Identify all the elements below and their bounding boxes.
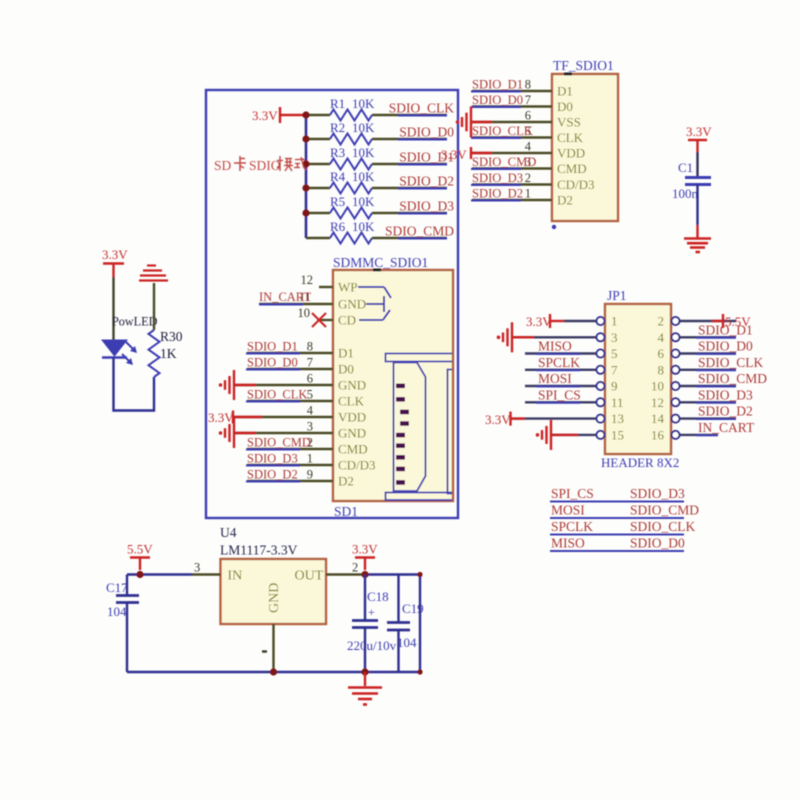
power 3.3V pull-up bus xyxy=(280,107,303,123)
wire TF pin 5 xyxy=(472,136,552,138)
svg-text:SDIO_CMD: SDIO_CMD xyxy=(472,155,536,169)
svg-text:3.3V: 3.3V xyxy=(102,247,128,262)
svg-text:R4: R4 xyxy=(330,169,346,184)
junction xyxy=(361,571,368,578)
svg-text:SDIO_CMD: SDIO_CMD xyxy=(698,371,767,386)
svg-text:10K: 10K xyxy=(352,145,375,160)
wire ground rail xyxy=(127,671,420,673)
pin 2 CD/D3 xyxy=(525,171,595,192)
pin 4 VDD xyxy=(525,140,585,161)
net SDIO_D2 xyxy=(246,468,300,482)
wire SDMMC pin 7 xyxy=(247,368,333,370)
pin 5 CLK xyxy=(525,124,584,145)
net IN_CART xyxy=(259,290,311,305)
wire JP1 pin 8 xyxy=(680,369,737,371)
resistor R6 xyxy=(330,219,375,244)
junction xyxy=(302,135,309,142)
svg-text:SDIO_CLK: SDIO_CLK xyxy=(472,124,533,138)
net SPI_CS xyxy=(536,387,581,403)
net SDIO_D3 xyxy=(696,387,753,403)
wire LED cathode xyxy=(114,358,155,411)
pin 2 xyxy=(672,317,680,325)
svg-text:SDIO_CLK: SDIO_CLK xyxy=(247,388,307,402)
svg-text:4: 4 xyxy=(307,404,314,418)
svg-text:9: 9 xyxy=(307,468,313,482)
SD card pads xyxy=(396,384,409,485)
net SDIO_CLK xyxy=(246,388,307,402)
svg-text:VDD: VDD xyxy=(338,410,366,425)
pin 7 D0 xyxy=(525,93,573,114)
svg-text:D1: D1 xyxy=(557,84,573,99)
junction xyxy=(136,571,143,578)
svg-text:PowLED: PowLED xyxy=(112,315,158,329)
svg-text:8: 8 xyxy=(658,362,665,377)
ground TF VSS xyxy=(462,107,471,138)
wire C18 bottom xyxy=(364,628,366,673)
svg-text:10: 10 xyxy=(298,306,311,320)
SD card drawing xyxy=(386,354,453,501)
wire SDMMC pin 12 xyxy=(319,286,333,288)
pin 6 GND xyxy=(307,372,366,393)
svg-text:MISO: MISO xyxy=(538,339,572,354)
svg-text:GND: GND xyxy=(338,426,366,441)
wire JP1 pin 15 xyxy=(551,434,597,436)
net SDIO_CMD xyxy=(385,224,454,239)
node TF bottom xyxy=(552,225,556,229)
svg-text:10K: 10K xyxy=(352,219,375,234)
ground JP1 pin 3 xyxy=(512,336,534,338)
pin 3 xyxy=(597,333,605,341)
wire JP1 pin 10 xyxy=(680,385,737,387)
ground JP1 pin 15 xyxy=(551,434,578,436)
pin 1 GND xyxy=(262,650,267,652)
net SDIO_CLK xyxy=(471,124,533,138)
svg-text:8: 8 xyxy=(525,78,531,92)
svg-text:SDIO_D3: SDIO_D3 xyxy=(630,486,685,501)
resistor R3 xyxy=(330,145,375,170)
svg-text:D2: D2 xyxy=(557,193,573,208)
svg-text:D0: D0 xyxy=(557,99,573,114)
power 3.3V TF VDD xyxy=(441,147,492,162)
power 5.5V JP1 pin 2 xyxy=(712,314,751,329)
pin 13 xyxy=(597,415,605,423)
wire R3 to net label xyxy=(372,163,447,165)
pin 8 D1 xyxy=(525,78,573,99)
svg-text:R6: R6 xyxy=(330,219,346,234)
svg-text:IN_CART: IN_CART xyxy=(259,290,311,304)
net SDIO_D0 xyxy=(398,125,454,140)
svg-text:SPI_CS: SPI_CS xyxy=(551,486,594,501)
svg-text:SPI_CS: SPI_CS xyxy=(538,387,581,402)
wire TF pin 3 xyxy=(472,167,552,169)
svg-text:7: 7 xyxy=(611,362,618,377)
wire JP1 pin 7 xyxy=(525,369,597,371)
svg-text:9: 9 xyxy=(611,379,618,394)
pin 9 D2 xyxy=(307,468,354,489)
pin 8 D1 xyxy=(307,340,354,361)
svg-text:6: 6 xyxy=(658,346,665,361)
resistor R1 xyxy=(330,96,375,121)
wire JP1 pin 4 xyxy=(680,336,737,338)
wire TF pin 6 xyxy=(472,121,552,123)
wire C19 bottom xyxy=(397,630,399,672)
wire JP1 pin 14 xyxy=(680,417,737,419)
svg-text:SPCLK: SPCLK xyxy=(551,519,593,534)
net SPCLK xyxy=(536,355,580,371)
net SDIO_D2 xyxy=(696,404,753,420)
svg-text:7: 7 xyxy=(307,356,313,370)
svg-text:1: 1 xyxy=(611,314,618,329)
wire right rail xyxy=(419,575,421,673)
svg-text:CD/D3: CD/D3 xyxy=(557,177,595,192)
pin 8 xyxy=(672,366,680,374)
svg-text:10K: 10K xyxy=(352,96,375,111)
text SD card SDIO mode caption xyxy=(214,156,307,173)
wire IN xyxy=(127,573,221,575)
svg-text:JP1: JP1 xyxy=(607,288,627,303)
wire JP1 pin 13 xyxy=(511,417,597,419)
svg-text:12: 12 xyxy=(651,395,664,410)
svg-text:3.3V: 3.3V xyxy=(252,108,278,123)
svg-text:2: 2 xyxy=(658,314,665,329)
svg-text:SDIO_CLK: SDIO_CLK xyxy=(698,355,764,370)
svg-text:LM1117-3.3V: LM1117-3.3V xyxy=(220,543,298,558)
power 3.3V SDMMC VDD xyxy=(208,410,333,425)
wire R6 to net label xyxy=(372,237,447,239)
svg-text:1K: 1K xyxy=(160,346,177,361)
power 3.3V JP1 pin 13 xyxy=(511,412,526,426)
pin 14 xyxy=(672,415,680,423)
svg-text:R30: R30 xyxy=(160,329,183,344)
svg-text:SDIO_D3: SDIO_D3 xyxy=(698,387,753,402)
capacitor C18 xyxy=(347,589,397,653)
pin 9 xyxy=(597,382,605,390)
wire R6 left lead xyxy=(306,237,330,239)
svg-text:GND: GND xyxy=(338,297,366,312)
svg-text:3: 3 xyxy=(307,420,313,434)
wire TF pin 8 xyxy=(472,90,552,92)
svg-text:R2: R2 xyxy=(330,120,345,135)
net SDIO_D0 xyxy=(696,339,753,355)
svg-text:IN: IN xyxy=(228,569,243,584)
svg-text:D0: D0 xyxy=(338,362,354,377)
wire R1 to net label xyxy=(372,114,447,116)
net SDIO_D1 xyxy=(398,150,454,165)
wire TF pin 7 xyxy=(472,105,552,107)
svg-text:CD: CD xyxy=(338,313,356,328)
power 3.3V C1 xyxy=(686,124,712,152)
wire SDMMC pin 11 IN_CART xyxy=(259,303,333,305)
svg-text:104: 104 xyxy=(107,604,127,619)
wire C19 top xyxy=(397,575,399,623)
capacitor C1 xyxy=(672,160,711,201)
connector TF_SDIO1 xyxy=(552,58,618,221)
wire JP1 pin 5 xyxy=(525,352,597,354)
svg-text:7: 7 xyxy=(525,93,531,107)
svg-text:5.5V: 5.5V xyxy=(127,542,153,557)
svg-text:CD/D3: CD/D3 xyxy=(338,458,376,473)
svg-text:4: 4 xyxy=(525,140,532,154)
svg-text:3: 3 xyxy=(611,330,618,345)
junction xyxy=(302,184,309,191)
net SDIO_D0 xyxy=(471,93,523,107)
svg-text:5: 5 xyxy=(307,388,313,402)
svg-text:3.3V: 3.3V xyxy=(526,314,552,329)
wire C18 top xyxy=(364,575,366,621)
svg-text:3.3V: 3.3V xyxy=(208,410,234,425)
svg-text:SDIO_D0: SDIO_D0 xyxy=(399,125,454,140)
pin 7 D0 xyxy=(307,356,354,377)
pin 1 xyxy=(597,317,605,325)
net SDIO_D2 xyxy=(398,174,454,189)
ground supply xyxy=(348,672,382,705)
pin 4 VDD xyxy=(307,404,366,425)
wire C17 bottom xyxy=(126,603,128,673)
svg-text:2: 2 xyxy=(525,171,531,185)
svg-text:16: 16 xyxy=(651,427,665,442)
svg-text:104: 104 xyxy=(397,635,417,650)
wire C17 top xyxy=(126,575,128,596)
pin 11 GND xyxy=(299,290,366,312)
switch WP-GND-CD xyxy=(358,287,391,320)
svg-text:SDIO_D2: SDIO_D2 xyxy=(247,468,298,482)
svg-text:SDIO_D0: SDIO_D0 xyxy=(472,93,523,107)
svg-text:14: 14 xyxy=(651,411,665,426)
net SDIO_D3 xyxy=(398,199,454,214)
ground SDMMC pin 6 xyxy=(234,384,333,386)
wire JP1 pin 9 xyxy=(525,385,597,387)
net SDIO_D2 xyxy=(471,187,523,201)
svg-text:1: 1 xyxy=(525,187,531,201)
junction xyxy=(417,669,422,674)
svg-text:SDIO_CLK: SDIO_CLK xyxy=(389,101,455,116)
svg-text:1: 1 xyxy=(307,452,313,466)
pin 3 IN xyxy=(194,561,200,575)
svg-text:SDMMC_SDIO1: SDMMC_SDIO1 xyxy=(333,255,428,270)
pin 16 xyxy=(672,431,680,439)
junction xyxy=(302,209,309,216)
svg-text:3.3V: 3.3V xyxy=(352,542,378,557)
svg-text:HEADER 8X2: HEADER 8X2 xyxy=(601,455,679,470)
net SDIO_D1 xyxy=(246,340,300,354)
pin 2 CMD xyxy=(307,436,368,457)
wire JP1 pin 6 xyxy=(680,352,737,354)
net SDIO_D3 xyxy=(471,171,523,185)
wire SDMMC pin 5 xyxy=(247,400,333,402)
svg-text:VSS: VSS xyxy=(557,115,581,130)
svg-text:SDIO_D0: SDIO_D0 xyxy=(630,536,685,551)
svg-text:OUT: OUT xyxy=(295,569,324,584)
pin 10 xyxy=(672,382,680,390)
wire JP1 pin 3 xyxy=(512,336,597,338)
svg-text:C18: C18 xyxy=(367,589,389,604)
no-connect X pin 10 xyxy=(312,313,326,327)
net SDIO_D3 xyxy=(246,452,300,466)
svg-text:VDD: VDD xyxy=(557,146,585,161)
LED PowLED xyxy=(102,315,158,366)
svg-text:IN_CART: IN_CART xyxy=(698,420,755,435)
net SDIO_CMD xyxy=(246,436,311,450)
svg-text:SDIO_D1: SDIO_D1 xyxy=(247,340,298,354)
svg-text:CLK: CLK xyxy=(338,394,365,409)
power 3.3V JP1 pin 1 xyxy=(550,314,564,328)
wire JP1 pin 16 xyxy=(680,434,719,436)
pin 3 CMD xyxy=(525,155,587,176)
wire GND pin xyxy=(272,624,274,672)
wire SDMMC pin 8 xyxy=(247,352,333,354)
wire R4 left lead xyxy=(306,187,330,189)
resistor R30 xyxy=(149,329,183,377)
wire TF pin 2 xyxy=(472,183,552,185)
net MISO xyxy=(536,339,580,355)
pin 1 D2 xyxy=(525,187,573,208)
junction xyxy=(302,160,309,167)
wire pull-up bus xyxy=(305,115,308,238)
pin 6 VSS xyxy=(525,109,581,130)
pin 11 xyxy=(597,398,605,406)
wire LED anode xyxy=(112,277,114,340)
pin 5 CLK xyxy=(307,388,365,409)
wire JP1 pin 12 xyxy=(680,401,737,403)
svg-text:SPCLK: SPCLK xyxy=(538,355,580,370)
svg-text:R5: R5 xyxy=(330,194,345,209)
wire R5 to net label xyxy=(372,212,447,214)
svg-text:SDIO_CMD: SDIO_CMD xyxy=(385,224,454,239)
junction xyxy=(302,111,309,118)
svg-text:SDIO_D2: SDIO_D2 xyxy=(472,187,523,201)
pin 12 xyxy=(672,398,680,406)
wire net tie xyxy=(550,517,684,519)
pin 15 xyxy=(597,431,605,439)
wire SDMMC pin 9 xyxy=(247,480,333,482)
wire SDMMC pin 1 xyxy=(247,464,333,466)
wire R30 top xyxy=(153,283,155,330)
svg-text:SDIO: SDIO xyxy=(249,158,281,173)
wire R3 left lead xyxy=(306,163,330,165)
net IN_CART xyxy=(696,420,755,436)
svg-text:MOSI: MOSI xyxy=(538,371,572,386)
svg-text:TF_SDIO1: TF_SDIO1 xyxy=(553,58,614,73)
wire JP1 pin 11 xyxy=(525,401,597,403)
svg-text:5.5V: 5.5V xyxy=(725,314,751,329)
pin 10 CD xyxy=(298,306,357,328)
svg-text:C1: C1 xyxy=(678,160,693,175)
net SDIO_CMD xyxy=(471,155,536,169)
svg-text:10K: 10K xyxy=(352,120,375,135)
power 5.5V input xyxy=(127,542,153,571)
svg-text:15: 15 xyxy=(611,427,624,442)
svg-text:R3: R3 xyxy=(330,145,345,160)
wire R1 left lead xyxy=(306,114,330,116)
net SDIO_CLK xyxy=(696,355,764,371)
regulator U4 LM1117-3.3V xyxy=(220,525,326,624)
svg-text:CMD: CMD xyxy=(338,442,368,457)
pin 4 xyxy=(672,333,680,341)
pin 7 xyxy=(597,366,605,374)
svg-text:SDIO_CMD: SDIO_CMD xyxy=(630,503,699,518)
svg-text:SD: SD xyxy=(214,158,232,173)
svg-text:SDIO_D2: SDIO_D2 xyxy=(698,404,753,419)
svg-text:2: 2 xyxy=(352,561,358,575)
junction xyxy=(417,572,422,577)
svg-text:SDIO_D3: SDIO_D3 xyxy=(472,171,523,185)
svg-text:3.3V: 3.3V xyxy=(686,124,712,139)
junction xyxy=(270,668,277,675)
svg-text:5: 5 xyxy=(611,346,618,361)
wire JP1 pin 1 xyxy=(564,320,597,322)
wire C1 bottom xyxy=(696,185,698,226)
wire net tie xyxy=(550,501,684,503)
ground C1 xyxy=(684,239,711,253)
ground SDMMC pin 3 xyxy=(234,432,333,434)
pin 2 OUT xyxy=(352,561,358,575)
svg-text:CMD: CMD xyxy=(557,161,587,176)
connector JP1 xyxy=(601,288,679,470)
svg-text:SDIO_CMD: SDIO_CMD xyxy=(247,436,311,450)
resistor R4 xyxy=(330,169,375,194)
wire R5 left lead xyxy=(306,212,330,214)
svg-text:+: + xyxy=(368,605,375,619)
net MOSI xyxy=(536,371,580,387)
power 3.3V output xyxy=(352,542,378,571)
svg-text:D2: D2 xyxy=(338,474,354,489)
pin 3 GND xyxy=(307,420,366,441)
resistor R5 xyxy=(330,194,375,219)
svg-text:WP: WP xyxy=(338,280,358,295)
svg-text:GND: GND xyxy=(338,378,366,393)
ground R30 xyxy=(139,266,168,281)
svg-text:CLK: CLK xyxy=(557,130,584,145)
pin 1 CD/D3 xyxy=(307,452,376,473)
svg-text:SDIO_D0: SDIO_D0 xyxy=(247,356,298,370)
resistor R2 xyxy=(330,120,375,145)
pin 12 WP xyxy=(301,273,358,295)
wire TF pin 1 xyxy=(472,199,552,201)
svg-text:6: 6 xyxy=(307,372,313,386)
net SDIO_CLK xyxy=(389,101,455,116)
net SDIO_D0 xyxy=(246,356,300,370)
svg-text:SD1: SD1 xyxy=(334,504,358,519)
svg-text:D1: D1 xyxy=(338,346,354,361)
net SDIO_D1 xyxy=(696,322,753,338)
capacitor C17 xyxy=(106,580,139,619)
svg-text:100n: 100n xyxy=(672,186,699,201)
pin 6 xyxy=(672,350,680,358)
svg-text:10: 10 xyxy=(651,379,664,394)
svg-text:10K: 10K xyxy=(352,194,375,209)
wire TF pin 4 xyxy=(472,152,552,154)
wire R2 to net label xyxy=(372,138,447,140)
svg-text:SDIO_D3: SDIO_D3 xyxy=(399,199,454,214)
svg-text:3.3V: 3.3V xyxy=(441,147,467,162)
wire C1 top xyxy=(696,152,698,176)
svg-text:220u/10v: 220u/10v xyxy=(347,638,397,653)
pin 5 xyxy=(597,350,605,358)
wire R2 left lead xyxy=(306,138,330,140)
net SDIO_CMD xyxy=(696,371,767,387)
svg-text:GND: GND xyxy=(267,583,282,613)
wire SDMMC pin 10 xyxy=(319,319,333,321)
svg-text:8: 8 xyxy=(307,340,313,354)
svg-text:MOSI: MOSI xyxy=(551,503,585,518)
svg-text:MISO: MISO xyxy=(551,536,585,551)
svg-text:SDIO_D1: SDIO_D1 xyxy=(472,78,523,92)
wire net tie xyxy=(550,534,684,536)
svg-text:12: 12 xyxy=(301,273,314,287)
connector SDMMC_SDIO1 xyxy=(333,255,453,519)
svg-text:3.3V: 3.3V xyxy=(485,412,511,427)
svg-text:U4: U4 xyxy=(220,525,237,540)
